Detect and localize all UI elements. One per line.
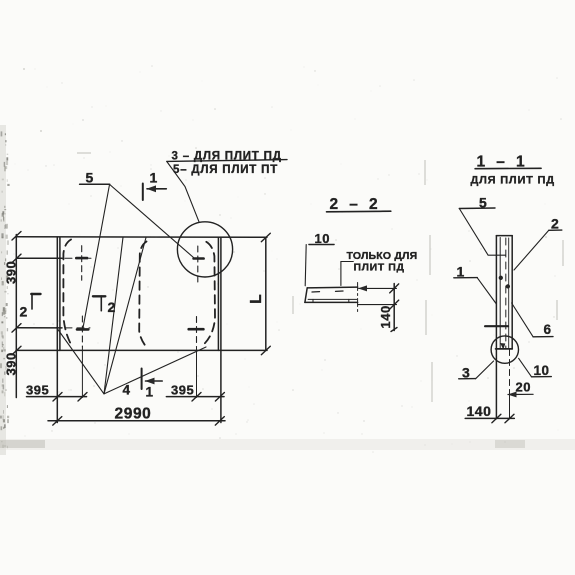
left torn scan edge band [0, 125, 10, 455]
395 left dimension line [27, 396, 87, 398]
2990 tick left [53, 417, 62, 426]
plate left edge (double line), extended down to dimension lines [56, 237, 58, 423]
svg-text:L: L [248, 294, 265, 304]
leader: apex to right anchor area [104, 347, 206, 394]
L dim tick top [261, 233, 270, 242]
svg-text:3 – ДЛЯ ПЛИТ ПД: 3 – ДЛЯ ПЛИТ ПД [172, 151, 282, 163]
svg-text:1: 1 [457, 263, 465, 279]
140 tick left [492, 414, 501, 423]
svg-text:2 – 2: 2 – 2 [330, 196, 381, 213]
2990 dimension line [48, 420, 225, 422]
section mark 2 (inner): bar [93, 295, 105, 297]
plate right edge (double line), extended down [217, 237, 219, 350]
svg-text:20: 20 [516, 379, 531, 394]
rebar dots [499, 276, 502, 279]
label 5 leader: diagonal + horizontal into column [459, 209, 505, 256]
svg-text:2: 2 [108, 299, 116, 315]
20 dimension line with arrow [508, 393, 533, 395]
lifting anchor top-left: bar [76, 257, 87, 260]
svg-text:1 – 1: 1 – 1 [477, 154, 528, 171]
140 bottom dimension line [465, 417, 514, 419]
anchor bottom-left centerline + extension to 395 dim [81, 316, 83, 347]
plate top edge with extensions [16, 236, 267, 239]
label 3 leader [476, 361, 494, 379]
label 3 shelf [459, 378, 476, 380]
title underline 2-2 [327, 210, 391, 213]
svg-text:5– ДЛЯ ПЛИТ ПТ: 5– ДЛЯ ПЛИТ ПТ [173, 164, 278, 176]
section mark 1 (top): cut line [142, 184, 144, 201]
label 1 shelf [454, 277, 478, 279]
svg-text:ПЛИТ ПД: ПЛИТ ПД [354, 261, 405, 273]
140 tick bottom [390, 300, 399, 309]
140 end mark [391, 328, 397, 332]
label 6 leader [512, 303, 533, 337]
label 10 underline [309, 244, 334, 246]
section mark 1 (bottom): arrow [146, 380, 163, 382]
140 top extension with arrow [359, 287, 397, 289]
svg-text:140: 140 [467, 403, 492, 419]
left dimension line vertical [15, 235, 17, 398]
column top cap [496, 235, 512, 237]
right dimension line L [265, 237, 267, 350]
label 5 underline [80, 183, 110, 185]
dim tick 3 [12, 324, 21, 333]
hidden dashed outline, middle edge (PT plates) [139, 242, 148, 349]
lifting anchor bottom-right: bar [189, 328, 204, 331]
slab profile top edge [307, 286, 357, 289]
slab left slanted end [305, 288, 307, 303]
2990 tick right [215, 417, 224, 426]
svg-text:6: 6 [544, 322, 552, 337]
leader: top edge to apex [104, 238, 146, 394]
dim tick 4 [12, 346, 21, 355]
plate bottom edge with extensions [16, 349, 267, 351]
svg-text:4: 4 [123, 383, 131, 398]
tick at right plate edge [215, 393, 224, 402]
hidden dashed outline, left edge [63, 240, 71, 346]
section mark 2 (left): cut line [31, 294, 33, 310]
svg-text:10: 10 [534, 363, 550, 378]
column inner left line [499, 238, 501, 349]
title underline 1-1 [475, 167, 541, 169]
anchor top-left centerline [81, 246, 83, 281]
svg-text:390: 390 [4, 352, 19, 375]
paper speckle [12, 65, 562, 453]
svg-text:140: 140 [378, 305, 393, 328]
hidden dashed outline, right edge (PD plates) [203, 242, 215, 345]
svg-text:2990: 2990 [115, 406, 152, 423]
svg-text:395: 395 [171, 383, 194, 398]
svg-text:10: 10 [315, 231, 330, 246]
leader: apex to left anchor area [57, 328, 105, 394]
L dim tick bottom [261, 346, 270, 355]
detail circle right view [491, 336, 518, 363]
dim tick top [12, 232, 21, 241]
svg-text:5: 5 [479, 194, 487, 210]
svg-text:1: 1 [146, 384, 154, 399]
scanner noise speckle [23, 68, 564, 402]
section centerline [357, 283, 359, 313]
column inner dashed line [505, 238, 507, 348]
svg-text:1: 1 [150, 169, 158, 185]
section mark 1 (bottom): cut line [141, 369, 143, 390]
lifting anchor bottom-left: bar [77, 328, 88, 331]
column right hidden line below [509, 350, 511, 395]
slab inner line [308, 298, 357, 300]
column outer right line [511, 236, 513, 349]
leader: top edge to apex (near vertical) [104, 237, 123, 394]
dim tick 2 [12, 254, 21, 263]
140 tick top [390, 284, 399, 293]
label 1 leader [477, 278, 496, 304]
note shelf line [167, 160, 287, 162]
label 5 shelf [459, 207, 495, 210]
lifting anchor top-right: bar [194, 257, 204, 260]
note bracket (tolko dlya plit PD) [341, 262, 353, 286]
detail circle on plan [177, 222, 232, 277]
section mark 2 (inner): cut line [100, 296, 102, 311]
column bottom cap [496, 348, 513, 350]
tick at anchor line [78, 393, 87, 402]
svg-text:2: 2 [551, 216, 559, 232]
svg-text:395: 395 [26, 382, 49, 397]
leader: 5-label to bottom-left anchor [83, 185, 110, 329]
column outer left line [495, 236, 497, 419]
svg-text:ДЛЯ ПЛИТ ПД: ДЛЯ ПЛИТ ПД [471, 174, 555, 186]
svg-text:2: 2 [20, 304, 28, 320]
tick at right anchor line [192, 393, 201, 402]
label 10 leader down to slab tip [305, 245, 306, 286]
label 2 shelf [549, 229, 562, 231]
label 10 shelf [532, 376, 552, 378]
tick at plate edge [53, 393, 62, 402]
label 10 leader [519, 358, 532, 377]
anchor bar through column [485, 325, 508, 327]
140 tick right [505, 414, 514, 423]
140 dimension vertical [393, 284, 395, 331]
140 bottom extension [358, 304, 397, 306]
svg-text:3: 3 [462, 364, 470, 380]
reinforcement marks in slab [312, 291, 320, 293]
slab profile bottom edge [305, 301, 358, 303]
note leader to circle [167, 162, 199, 222]
395 right dimension line [166, 396, 224, 398]
anchor top-right centerline [197, 246, 199, 282]
extension line at bottom anchor row [16, 327, 90, 329]
column inner right line [508, 238, 510, 349]
label 6 shelf [533, 336, 553, 338]
horizontal fold streak [0, 439, 575, 450]
svg-text:ТОЛЬКО ДЛЯ: ТОЛЬКО ДЛЯ [347, 250, 418, 262]
extension line at top anchor row [16, 257, 91, 259]
leader: 5-label to circle anchor [110, 185, 194, 258]
anchor bottom-right centerline + extension to 395 dim [196, 317, 198, 348]
section mark 2 (left): bar [31, 293, 40, 295]
section mark 1 (top): arrow [147, 188, 166, 190]
label 2 leader [514, 230, 549, 270]
wedge detail in circle [501, 344, 505, 349]
svg-text:390: 390 [4, 261, 19, 284]
svg-text:5: 5 [86, 169, 94, 185]
